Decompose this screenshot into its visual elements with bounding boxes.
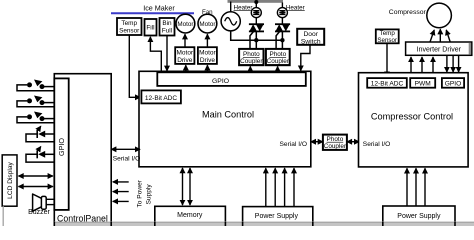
box Power Supply (compressor): [383, 206, 455, 228]
wire Motor Drive 1 to GPIO: [185, 65, 187, 72]
bus GPIO (main control): [157, 72, 305, 86]
wire Power Supply to Main Control 4: [293, 168, 295, 206]
wire Motor Drive 1 to motor M1: [184, 34, 186, 47]
label To Power Supply: [137, 179, 153, 207]
svg-text:Power Supply: Power Supply: [255, 213, 299, 220]
wire Inverter Driver to compressor 3: [446, 30, 450, 42]
svg-text:Motor: Motor: [199, 50, 216, 57]
svg-text:Motor: Motor: [176, 50, 193, 57]
wire LCD Display to GPIO 2: [19, 186, 53, 188]
wire Power Supply 2 to Compressor Control 1: [406, 168, 408, 206]
wire Door Switch to GPIO: [301, 45, 310, 71]
svg-text:Ice Maker: Ice Maker: [143, 4, 175, 13]
box Inverter Driver: [406, 42, 472, 55]
box Motor Drive 2: [198, 47, 217, 64]
svg-text:Coupler: Coupler: [267, 58, 290, 65]
box Bin Full: [160, 18, 175, 36]
wire PWM to Inverter Driver 2: [421, 57, 423, 73]
ice maker blue separator line: [111, 12, 194, 14]
wire Power Supply to Main Control 1: [265, 168, 267, 206]
triac Q2: [275, 24, 290, 49]
clipped gray line below LCD: [2, 206, 4, 226]
wire Power Supply 2 to Compressor Control 3: [424, 168, 426, 206]
svg-text:Photo: Photo: [327, 136, 344, 143]
clipped bottom gray strip: [54, 222, 474, 226]
box Temp Sensor (ice maker): [117, 18, 142, 35]
wire To Power Supply 2: [113, 191, 129, 193]
svg-text:Buzzer: Buzzer: [28, 209, 50, 216]
wire PWM to Inverter Driver 1: [410, 57, 412, 73]
wire Main Control to Photo Coupler 3: [311, 141, 323, 143]
LED D1: [26, 126, 54, 142]
svg-text:To Power: To Power: [137, 179, 144, 207]
svg-text:Motor: Motor: [177, 21, 193, 28]
svg-text:12-Bit ADC: 12-Bit ADC: [145, 95, 177, 102]
svg-text:PWM: PWM: [415, 81, 431, 88]
box 12-Bit ADC (main control): [141, 90, 181, 103]
svg-text:12-Bit ADC: 12-Bit ADC: [371, 81, 404, 88]
svg-text:GPIO: GPIO: [212, 78, 229, 85]
motor M1 (ice maker): [176, 14, 195, 33]
svg-text:GPIO: GPIO: [445, 81, 462, 88]
svg-text:Photo: Photo: [269, 51, 286, 58]
svg-text:Serial I/O: Serial I/O: [280, 141, 307, 148]
wire Power Supply 2 to Compressor Control 2: [415, 168, 417, 206]
svg-text:LCD Display: LCD Display: [7, 161, 14, 198]
wire PWM to Inverter Driver 3: [432, 57, 434, 73]
wire Inverter Driver to GPIO 3: [458, 55, 460, 72]
svg-text:Full: Full: [162, 27, 172, 34]
svg-text:Photo: Photo: [243, 51, 260, 58]
svg-text:Bin: Bin: [162, 20, 172, 27]
svg-text:Main Control: Main Control: [202, 110, 254, 120]
wire Main Control to Memory 2: [189, 168, 191, 205]
svg-text:Memory: Memory: [177, 212, 203, 219]
box Power Supply (main): [243, 207, 313, 229]
wire Serial I/O control panel to main control: [111, 148, 140, 150]
svg-text:Drive: Drive: [177, 57, 193, 64]
svg-text:Compressor: Compressor: [389, 9, 427, 16]
svg-text:Sensor: Sensor: [377, 37, 397, 44]
box Temp Sensor (compressor): [376, 29, 399, 44]
wire Temp Sensor to 12-Bit ADC (compressor): [386, 43, 388, 76]
svg-text:Coupler: Coupler: [240, 58, 263, 65]
wire GPIO to Photo Coupler 2: [277, 66, 279, 71]
wire Photo Coupler 3 to Compressor Control: [347, 141, 359, 143]
svg-text:Compressor Control: Compressor Control: [371, 112, 453, 122]
wire Motor Drive 2 to GPIO: [206, 65, 208, 72]
svg-text:Switch: Switch: [301, 38, 321, 45]
svg-text:Power Supply: Power Supply: [397, 213, 441, 220]
wire To Power Supply 1: [113, 181, 129, 183]
block ControlPanel: [54, 74, 111, 230]
box Door Switch: [297, 29, 324, 46]
box Memory: [155, 206, 226, 228]
box edges over gray strip: [54, 222, 455, 226]
svg-text:Serial I/O: Serial I/O: [363, 141, 390, 148]
bus GPIO (control panel): [54, 78, 68, 210]
svg-text:Drive: Drive: [200, 57, 216, 64]
box GPIO (compressor): [442, 78, 464, 88]
switch SW3: [17, 112, 54, 123]
wire Inverter Driver to GPIO 2: [452, 55, 454, 72]
wire Temp Sensor to 12-Bit ADC: [129, 35, 140, 97]
LED D2: [26, 147, 54, 163]
box Photo Coupler 2: [266, 49, 290, 65]
AC source: [221, 12, 240, 31]
svg-text:Temp: Temp: [121, 20, 137, 27]
svg-text:Serial I/O: Serial I/O: [113, 156, 140, 163]
svg-text:Door: Door: [303, 31, 318, 38]
heater element H1: [251, 3, 261, 25]
box Motor Drive 1: [175, 47, 194, 64]
box LCD Display: [2, 155, 17, 206]
wire Motor Drive 2 to motor M2: [206, 34, 208, 47]
wire AC source bottom to triac rail: [231, 31, 283, 40]
wire Main Control to Fill: [150, 37, 161, 72]
wire GPIO to Photo Coupler 1: [249, 66, 251, 71]
junction dot triac2: [280, 38, 284, 42]
motor M2 (fan): [198, 14, 217, 33]
svg-text:Inverter Driver: Inverter Driver: [417, 46, 462, 53]
box 12-Bit ADC (compressor): [367, 78, 407, 88]
svg-text:Sensor: Sensor: [119, 27, 140, 34]
switch SW1: [17, 80, 54, 91]
wire Inverter Driver to GPIO 1: [446, 55, 448, 72]
wire To Power Supply 3: [113, 200, 129, 202]
svg-text:Supply: Supply: [146, 184, 153, 205]
block Compressor Control: [359, 73, 469, 167]
compressor motor circle: [427, 3, 452, 28]
power rail (clipped, gray): [228, 0, 284, 3]
wire Power Supply to Main Control 2: [274, 168, 276, 206]
wire Inverter Driver to compressor 2: [439, 29, 441, 42]
wire Bin Full to GPIO: [166, 36, 168, 71]
box PWM: [410, 78, 435, 88]
triac Q1: [249, 24, 264, 49]
wire Power Supply to Main Control 3: [284, 168, 286, 206]
svg-text:Coupler: Coupler: [324, 143, 347, 150]
block Main Control: [139, 71, 311, 167]
wire Main Control to Memory 1: [182, 168, 184, 205]
svg-text:GPIO: GPIO: [57, 138, 66, 156]
buzzer speaker: [33, 194, 55, 211]
junction dot on rail: [254, 0, 258, 4]
box Photo Coupler 1: [239, 49, 263, 65]
svg-text:Fill: Fill: [146, 25, 154, 32]
box Fill: [145, 19, 157, 36]
svg-text:Motor: Motor: [199, 21, 215, 28]
heater element H2: [277, 3, 287, 25]
svg-text:Heater: Heater: [234, 4, 253, 11]
svg-text:Heater: Heater: [286, 4, 305, 11]
junction dot triac1: [254, 38, 258, 42]
switch SW2: [17, 96, 54, 107]
wire LCD Display to GPIO 1: [19, 175, 53, 177]
wire Inverter Driver to compressor 1: [430, 30, 434, 42]
wire AC source to rail: [230, 2, 232, 13]
box Photo Coupler 3: [323, 135, 347, 150]
